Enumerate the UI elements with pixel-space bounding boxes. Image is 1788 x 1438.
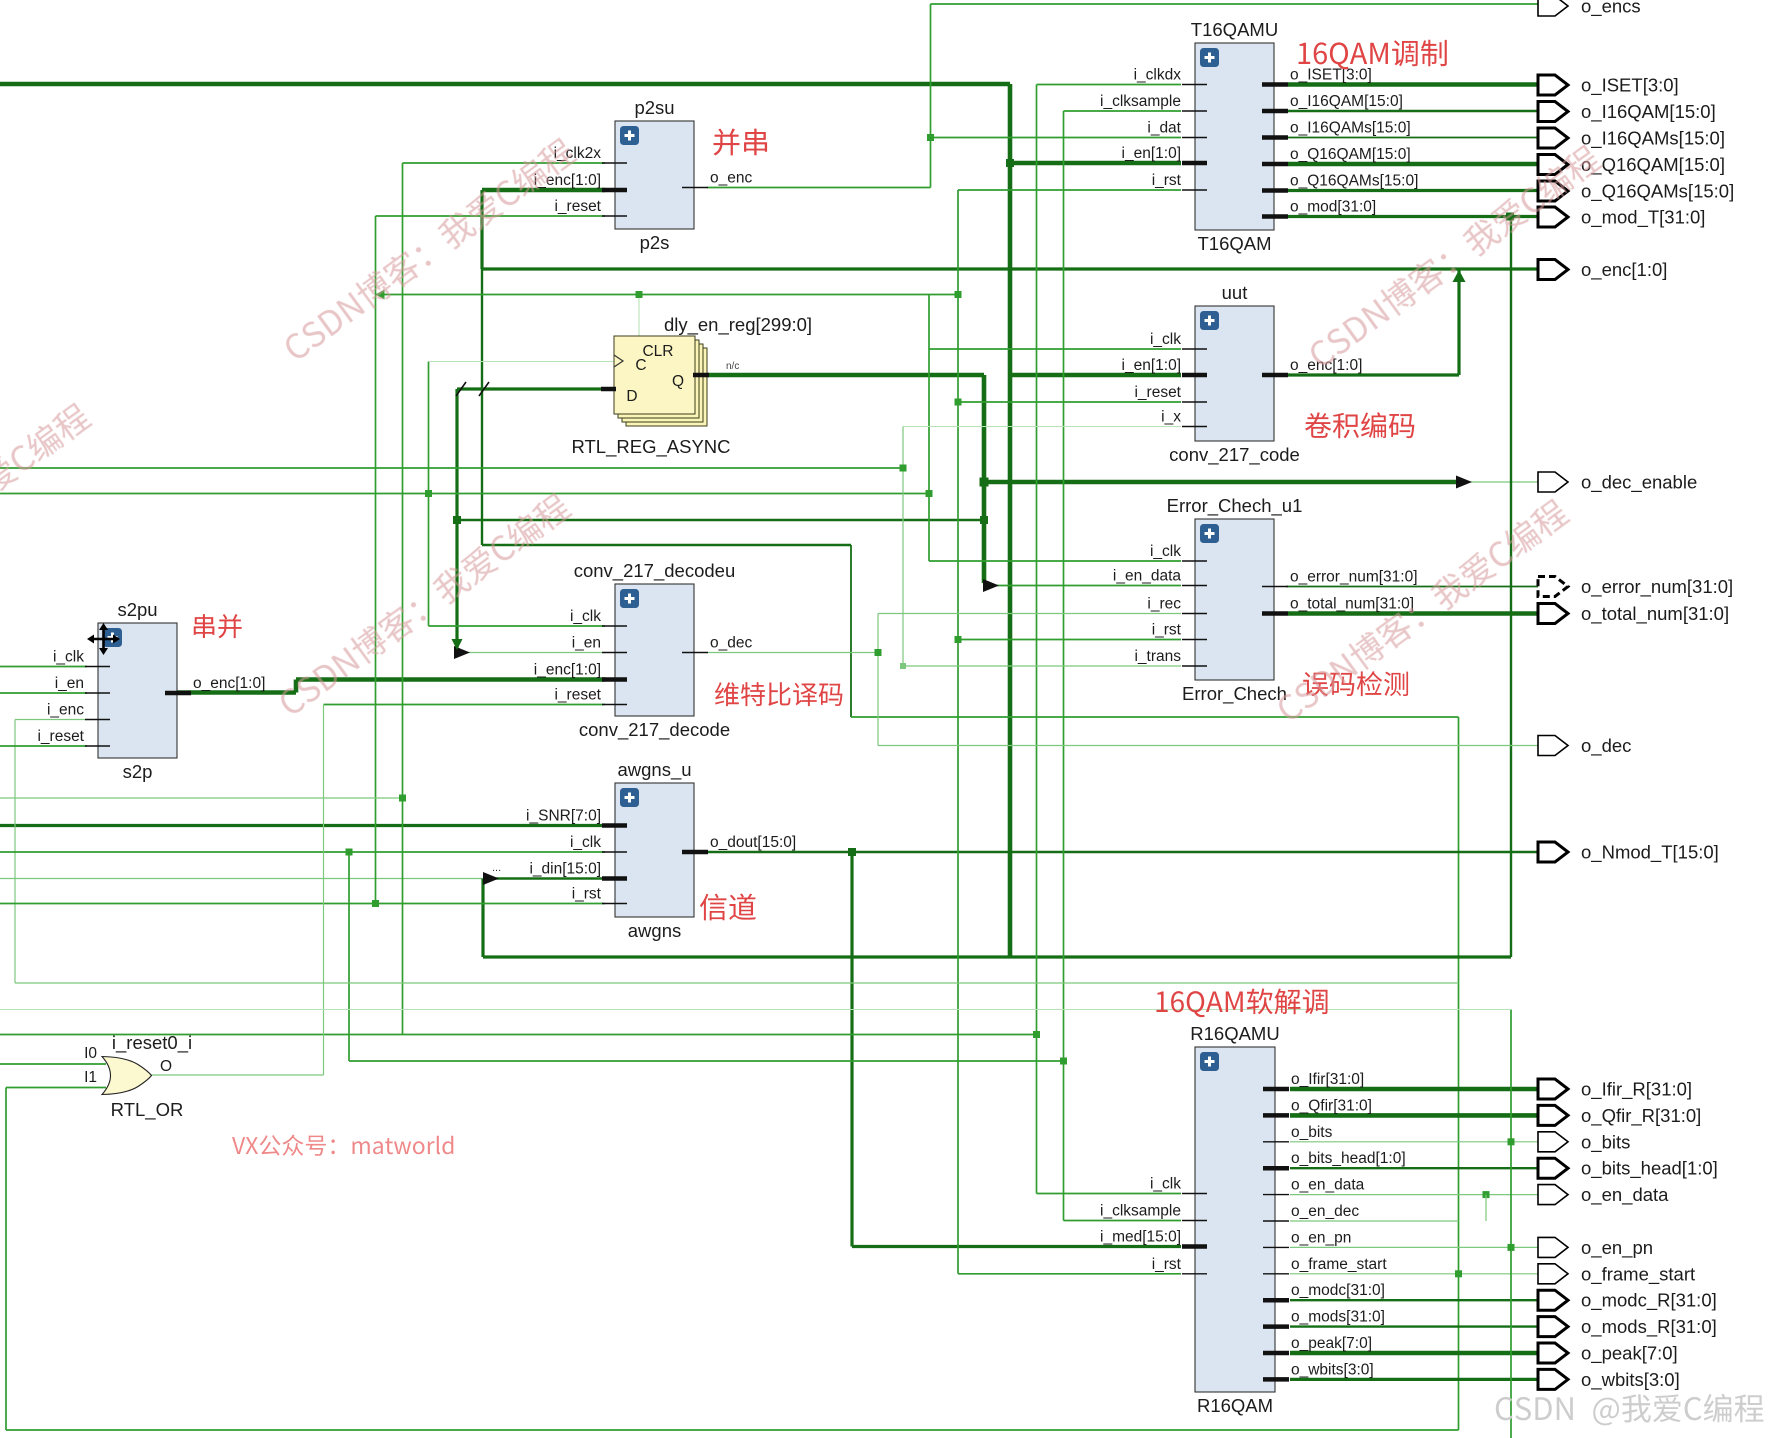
svg-text:o_total_num[31:0]: o_total_num[31:0] — [1581, 603, 1729, 625]
wire R16QAM i_rst feed — [958, 1273, 1181, 1275]
wire o_enc net rail y269 — [482, 267, 1539, 270]
wire net rail y545 — [482, 544, 851, 546]
wire uut i_clk feed — [929, 348, 1181, 350]
wire o_mod vertical x1511 — [1510, 217, 1512, 958]
wire decoder i_en line — [462, 652, 605, 654]
svg-text:o_enc[1:0]: o_enc[1:0] — [193, 675, 265, 692]
svg-text:o_Nmod_T[15:0]: o_Nmod_T[15:0] — [1581, 842, 1719, 864]
output port o_total_num[31:0] — [1538, 603, 1729, 625]
svg-text:Error_Chech_u1: Error_Chech_u1 — [1167, 495, 1303, 517]
wire o_dout vertical x852 — [850, 852, 853, 1247]
svg-text:i_en[1:0]: i_en[1:0] — [1122, 357, 1181, 374]
svg-text:o_Qfir[31:0]: o_Qfir[31:0] — [1291, 1097, 1372, 1114]
wire T16QAM o_ISET out — [1288, 82, 1539, 87]
svg-text:o_encs: o_encs — [1581, 0, 1641, 18]
wire R16QAM o_bits_head out — [1290, 1167, 1539, 1169]
output port o_Ifir_R[31:0] — [1538, 1079, 1692, 1101]
junction node i_x x903 — [900, 465, 907, 472]
wire s2p i_clk feed — [0, 666, 87, 668]
junction node o_frame_start — [1455, 1270, 1462, 1277]
wire T16QAM o_I16QAMs out — [1288, 137, 1539, 139]
svg-text:o_Ifir[31:0]: o_Ifir[31:0] — [1291, 1071, 1364, 1088]
wire R16QAM o_peak out — [1290, 1351, 1539, 1356]
junction node o_bits — [1508, 1138, 1515, 1145]
wire o_enc net vertical x482 lower — [481, 269, 483, 545]
output port o_bits_head[1:0] — [1538, 1158, 1718, 1180]
bus tick D wire 2 — [479, 382, 489, 396]
svg-text:i_clk: i_clk — [570, 608, 601, 625]
svg-text:o_wbits[3:0]: o_wbits[3:0] — [1581, 1369, 1680, 1391]
svg-text:o_bits_head[1:0]: o_bits_head[1:0] — [1581, 1158, 1718, 1180]
output port o_encs — [1538, 0, 1641, 18]
wire CLR drop x639 — [638, 295, 640, 337]
module conv_217_code (uut) — [1122, 282, 1363, 466]
wire RTL_OR I0 feed — [0, 1063, 106, 1065]
wire clk2x vertical x402 — [402, 163, 404, 1035]
junction node CLR/x958 — [955, 291, 962, 298]
svg-text:T16QAMU: T16QAMU — [1191, 19, 1278, 40]
svg-text:o_Q16QAM[15:0]: o_Q16QAM[15:0] — [1290, 146, 1411, 163]
wire T16QAM o_mod out — [1288, 215, 1539, 218]
svg-text:o_total_num[31:0]: o_total_num[31:0] — [1290, 596, 1414, 613]
svg-text:o_en_pn: o_en_pn — [1291, 1229, 1351, 1246]
svg-text:uut: uut — [1222, 282, 1248, 303]
wire decoder i_enc rail y679 — [296, 677, 605, 682]
svg-text:i_dat: i_dat — [1147, 120, 1181, 137]
svg-text:CLR: CLR — [642, 343, 673, 360]
svg-text:o_Q16QAM[15:0]: o_Q16QAM[15:0] — [1581, 154, 1725, 176]
wire clk vertical x929 — [928, 295, 930, 562]
svg-text:i_en_data: i_en_data — [1113, 568, 1181, 585]
svg-text:D: D — [626, 388, 637, 405]
svg-text:RTL_REG_ASYNC: RTL_REG_ASYNC — [571, 436, 730, 458]
svg-text:i_en: i_en — [572, 635, 601, 652]
wire reset vertical x958 — [957, 190, 959, 1274]
wire Error i_trans feed — [903, 665, 1181, 667]
svg-text:o_bits: o_bits — [1581, 1131, 1630, 1153]
svg-text:o_enc[1:0]: o_enc[1:0] — [1581, 259, 1667, 281]
wire vertical x323 — [323, 705, 325, 1076]
wire o_enc net vertical x482 upper — [480, 190, 483, 269]
output port o_mod_T[31:0] — [1538, 207, 1705, 229]
wire o_encs rail y4 — [931, 3, 1540, 5]
svg-text:o_peak[7:0]: o_peak[7:0] — [1581, 1343, 1678, 1365]
wire Error i_clk feed — [929, 560, 1181, 562]
svg-text:conv_217_code: conv_217_code — [1169, 444, 1300, 466]
svg-text:o_mod_T[31:0]: o_mod_T[31:0] — [1581, 207, 1705, 229]
svg-text:i_enc[1:0]: i_enc[1:0] — [534, 662, 601, 679]
svg-text:o_wbits[3:0]: o_wbits[3:0] — [1291, 1361, 1374, 1378]
wire dly_en_reg D feed — [457, 387, 603, 390]
output port o_frame_start — [1538, 1263, 1695, 1285]
wire R16QAM o_en_dec out — [1290, 1220, 1459, 1222]
wire R16QAM o_modc out — [1290, 1299, 1539, 1301]
wire net vertical x1458 — [1458, 717, 1460, 1430]
wire rail y1034 — [0, 1034, 1037, 1036]
svg-text:T16QAM: T16QAM — [1197, 233, 1271, 254]
svg-text:I0: I0 — [84, 1045, 97, 1062]
wire Error o_total_num out — [1288, 611, 1539, 616]
watermark 4 — [275, 490, 574, 719]
wire p2s o_enc out — [707, 187, 931, 189]
output port o_dec — [1538, 735, 1631, 757]
svg-text:i_rst: i_rst — [1152, 622, 1182, 639]
wire s2p o_enc step — [294, 680, 299, 693]
or-gate RTL_OR (i_reset0_i) — [84, 1032, 192, 1121]
svg-text:RTL_OR: RTL_OR — [111, 1099, 184, 1121]
junction node uut i_reset — [955, 399, 962, 406]
wire T16QAM i_clksample feed — [1064, 110, 1182, 112]
wire vertical x6 — [5, 1088, 7, 1431]
wire vertical x984 — [982, 375, 987, 583]
annotation label 信道 — [700, 894, 756, 921]
wire o_dec_enable rail y482 — [984, 480, 1456, 485]
svg-text:o_ISET[3:0]: o_ISET[3:0] — [1581, 75, 1679, 97]
output port o_en_data — [1538, 1184, 1669, 1206]
wire RTL_OR O out — [150, 1074, 324, 1076]
svg-text:o_modc[31:0]: o_modc[31:0] — [1291, 1282, 1385, 1299]
wire T16QAM o_Q16QAMs out — [1288, 189, 1539, 192]
register dly_en_reg[299:0] RTL_REG_ASYNC — [571, 314, 812, 458]
wire R16QAM o_Ifir out — [1290, 1087, 1539, 1092]
output port o_ISET[3:0] — [1538, 75, 1679, 97]
wire awgns i_clk feed — [0, 851, 605, 853]
svg-text:i_clk: i_clk — [1150, 1176, 1181, 1193]
svg-text:i_rst: i_rst — [572, 886, 602, 903]
svg-text:o_en_data: o_en_data — [1291, 1177, 1365, 1194]
wire R16QAM i_clk feed — [1037, 1193, 1182, 1195]
output port o_I16QAM[15:0] — [1538, 101, 1716, 123]
wire s2p i_en feed — [0, 692, 87, 694]
wire dly_en_reg C feed — [429, 361, 617, 363]
svg-text:i_reset: i_reset — [554, 687, 601, 704]
module R16QAM (R16QAMU) — [1100, 1023, 1406, 1416]
wire T16QAM i_rst feed — [958, 189, 1181, 191]
watermark 5 — [1273, 496, 1572, 725]
watermark 2 — [1305, 142, 1604, 371]
wire decoder i_clk feed — [429, 625, 606, 627]
wire i_din row light rail — [0, 878, 490, 880]
wire s2p i_enc vertical x15 — [14, 720, 16, 984]
svg-text:o_Q16QAMs[15:0]: o_Q16QAMs[15:0] — [1290, 173, 1418, 190]
wire R16QAM i_med feed — [852, 1245, 1181, 1248]
svg-text:o_dec: o_dec — [1581, 735, 1631, 757]
wire o_mod vertical x483 — [481, 879, 484, 958]
output port o_Nmod_T[15:0] — [1538, 842, 1719, 864]
junction node y520 — [980, 516, 988, 524]
wire vertical x428 — [428, 362, 430, 627]
svg-text:i_reset0_i: i_reset0_i — [112, 1032, 192, 1054]
junction node y520 left — [453, 516, 461, 524]
wire rail y983 — [15, 982, 1459, 984]
wire T16QAM o_I16QAM out — [1288, 110, 1539, 112]
svg-text:o_en_dec: o_en_dec — [1291, 1203, 1359, 1220]
annotation label 误码检测 — [1303, 671, 1408, 696]
wire net rail y717 — [851, 716, 1459, 718]
svg-text:conv_217_decodeu: conv_217_decodeu — [574, 560, 736, 582]
annotation label 维特比译码 — [715, 682, 842, 706]
wire awgns i_rst feed — [0, 903, 605, 905]
wire vertical x457 to decoder i_en — [455, 389, 458, 653]
wire RTL_OR I1 feed — [6, 1087, 106, 1089]
module s2p (s2pu) — [37, 599, 265, 782]
junction node R16 i_clksample — [1060, 1058, 1067, 1065]
svg-text:o_peak[7:0]: o_peak[7:0] — [1291, 1335, 1372, 1352]
svg-text:i_clk: i_clk — [1150, 543, 1181, 560]
svg-text:conv_217_decode: conv_217_decode — [579, 719, 730, 741]
output port o_modc_R[31:0] — [1538, 1290, 1717, 1312]
wire decoder i_reset feed — [324, 704, 606, 706]
svg-text:o_Qfir_R[31:0]: o_Qfir_R[31:0] — [1581, 1105, 1701, 1127]
svg-text:Q: Q — [672, 373, 684, 390]
module p2s (p2su) — [534, 97, 753, 253]
svg-text:awgns: awgns — [628, 920, 681, 941]
svg-text:dly_en_reg[299:0]: dly_en_reg[299:0] — [664, 314, 812, 336]
svg-text:Error_Chech: Error_Chech — [1182, 683, 1287, 705]
wire rail y1061 — [349, 1060, 1064, 1062]
svg-text:o_bits: o_bits — [1291, 1124, 1333, 1141]
svg-text:i_reset: i_reset — [1134, 384, 1181, 401]
module awgns (awgns_u) — [526, 759, 796, 941]
wire o_dec rail y745 — [878, 745, 1539, 747]
wire rail y1009 — [0, 1009, 1511, 1011]
svg-text:i_SNR[7:0]: i_SNR[7:0] — [526, 808, 601, 825]
wire R16QAM o_Qfir out — [1290, 1113, 1539, 1118]
wire p2s i_reset feed — [376, 215, 606, 217]
svg-text:i_enc: i_enc — [47, 702, 84, 719]
wire o_mod rail y957 — [483, 955, 1511, 958]
wire uut i_x feed — [903, 426, 1181, 428]
svg-text:R16QAM: R16QAM — [1197, 1395, 1273, 1416]
annotation label 16QAM软解调 — [1156, 988, 1327, 1017]
bus tick D wire — [456, 382, 466, 396]
annotation label 串并 — [194, 614, 242, 638]
svg-text:i_rst: i_rst — [1152, 172, 1182, 189]
wire R16QAM o_mods out — [1290, 1325, 1539, 1327]
svg-text:awgns_u: awgns_u — [617, 759, 691, 781]
wire R16QAM o_frame_start out — [1290, 1273, 1539, 1275]
output port o_I16QAMs[15:0] — [1538, 128, 1725, 150]
wire s2p i_enc feed — [15, 719, 87, 721]
svg-text:o_error_num[31:0]: o_error_num[31:0] — [1581, 576, 1733, 598]
wire reset vertical x375 — [375, 216, 377, 904]
output port o_wbits[3:0] — [1538, 1369, 1680, 1391]
svg-text:I1: I1 — [84, 1069, 97, 1086]
junction node o_mod_T — [1506, 213, 1514, 221]
svg-text:s2pu: s2pu — [117, 599, 157, 620]
wire i_en bus top rail — [0, 82, 1010, 87]
output port o_en_pn — [1538, 1237, 1653, 1259]
wire p2s i_clk2x feed — [403, 162, 606, 164]
wire T16QAM o_Q16QAM out — [1288, 162, 1539, 167]
svg-text:s2p: s2p — [123, 761, 153, 782]
arrowhead into awgns i_din — [483, 872, 499, 885]
output port o_error_num[31:0] — [1538, 576, 1733, 598]
junction node clk x929 — [926, 490, 933, 497]
wire Error o_error_num out — [1286, 586, 1539, 588]
junction node clk x428 — [425, 490, 432, 497]
wire Error i_rec feed — [878, 613, 1181, 615]
svg-text:o_dout[15:0]: o_dout[15:0] — [710, 834, 796, 851]
svg-text:o_en_pn: o_en_pn — [1581, 1237, 1653, 1259]
svg-text:p2s: p2s — [640, 232, 670, 253]
svg-text:O: O — [160, 1058, 172, 1075]
wire R16QAM i_clksample feed — [1064, 1220, 1182, 1222]
wire Error i_en_data feed — [992, 585, 1181, 587]
wire net vertical x851 — [850, 545, 852, 717]
watermark CSDN bottom — [1496, 1394, 1764, 1426]
wire i_en bus into uut i_en — [1010, 373, 1181, 378]
wire T16QAM i_dat feed — [931, 137, 1182, 139]
wire awgns o_dout to o_Nmod_T — [707, 851, 1539, 853]
arrowhead CLR rail left — [376, 290, 385, 300]
svg-text:i_din[15:0]: i_din[15:0] — [529, 861, 601, 878]
wire rail y798 — [0, 797, 403, 799]
wire uut i_reset feed — [958, 401, 1181, 403]
output port o_mods_R[31:0] — [1538, 1316, 1717, 1338]
wire uut o_enc vertical x1459 — [1457, 270, 1460, 375]
output port o_dec_enable — [1538, 472, 1697, 494]
wire clk rail y493 — [0, 493, 929, 495]
output port o_Q16QAM[15:0] — [1538, 154, 1725, 176]
wire p2s i_enc feed — [482, 188, 605, 193]
svg-text:o_en_data: o_en_data — [1581, 1184, 1669, 1206]
junction node awgns i_clk — [346, 849, 353, 856]
svg-text:i_clk: i_clk — [53, 649, 84, 666]
svg-text:o_enc[1:0]: o_enc[1:0] — [1290, 357, 1362, 374]
wire vertical x349 — [348, 852, 350, 1061]
wire awgns i_SNR rail — [0, 824, 605, 827]
annotation label 并串 — [714, 129, 768, 156]
output port o_bits — [1538, 1131, 1630, 1153]
wire uut o_enc out — [1288, 373, 1459, 376]
svg-text:i_reset: i_reset — [37, 728, 84, 745]
junction node o_encs/i_dat — [927, 134, 934, 141]
output port o_Qfir_R[31:0] — [1538, 1105, 1701, 1127]
module T16QAM (T16QAMU) — [1100, 19, 1418, 254]
wire Error i_rst feed — [958, 639, 1181, 641]
wire o_encs vertical x930 — [930, 4, 932, 188]
output port o_enc[1:0] — [1538, 259, 1667, 281]
svg-text:o_mods[31:0]: o_mods[31:0] — [1291, 1309, 1385, 1326]
svg-text:i_x: i_x — [1161, 409, 1181, 426]
junction node Error i_rst — [955, 636, 962, 643]
move-cursor icon on s2pu — [91, 627, 116, 651]
wire R16QAM o_en_pn out — [1290, 1246, 1539, 1248]
wire decoder o_dec out — [707, 652, 878, 654]
svg-text:o_error_num[31:0]: o_error_num[31:0] — [1290, 569, 1418, 586]
junction node o_dout — [848, 848, 856, 856]
junction node i_en T16QAM — [1006, 159, 1014, 167]
wire clkdx vertical x1036 — [1036, 85, 1038, 1194]
wire vertical x1511 lower — [1510, 1010, 1512, 1438]
wire awgns i_din feed — [492, 877, 605, 879]
junction node R16 i_clk — [1033, 1031, 1040, 1038]
svg-text:o_frame_start: o_frame_start — [1291, 1256, 1387, 1273]
wire R16QAM o_wbits out — [1290, 1378, 1539, 1381]
junction node y798 — [399, 795, 406, 802]
wire T16QAM i_clkdx feed — [1037, 84, 1182, 86]
wire R16QAM o_bits out — [1290, 1141, 1539, 1143]
wire o_dec_enable tail — [1462, 481, 1539, 483]
svg-text:C: C — [635, 357, 646, 374]
wire o_dec vertical x878 — [877, 614, 879, 746]
arrowhead into Error i_en_data — [983, 579, 999, 592]
svg-text:...: ... — [492, 862, 501, 874]
svg-text:o_enc: o_enc — [710, 170, 752, 187]
svg-text:o_I16QAMs[15:0]: o_I16QAMs[15:0] — [1581, 128, 1725, 150]
svg-text:o_frame_start: o_frame_start — [1581, 1263, 1695, 1285]
svg-text:i_clk: i_clk — [1150, 331, 1181, 348]
svg-text:o_mods_R[31:0]: o_mods_R[31:0] — [1581, 1316, 1717, 1338]
watermark 3 — [0, 400, 93, 629]
svg-text:p2su: p2su — [634, 97, 674, 118]
wire rail y520 — [457, 519, 984, 521]
wire i_en bus into T16QAM i_en — [1010, 161, 1181, 166]
svg-text:i_clksample: i_clksample — [1100, 93, 1181, 110]
svg-text:i_clksample: i_clksample — [1100, 1203, 1181, 1220]
svg-text:o_I16QAM[15:0]: o_I16QAM[15:0] — [1290, 93, 1403, 110]
wire rail y468 — [0, 467, 903, 469]
wire vertical x903 — [902, 427, 904, 667]
module Error_Chech (Error_Chech_u1) — [1113, 495, 1418, 705]
svg-text:o_modc_R[31:0]: o_modc_R[31:0] — [1581, 1290, 1717, 1312]
wire R16QAM o_en_data out — [1290, 1194, 1539, 1196]
svg-text:o_dec: o_dec — [710, 635, 752, 652]
output port o_Q16QAMs[15:0] — [1538, 181, 1734, 203]
svg-text:o_Q16QAMs[15:0]: o_Q16QAMs[15:0] — [1581, 181, 1734, 203]
arrowhead into decoder i_en — [454, 646, 470, 659]
junction node o_dec — [875, 649, 882, 656]
arrowhead into o_dec_enable — [1456, 476, 1472, 489]
wire clksample vertical x1063 — [1063, 111, 1065, 1221]
svg-text:i_en: i_en — [55, 675, 84, 692]
svg-text:i_rst: i_rst — [1152, 1256, 1182, 1273]
svg-text:o_bits_head[1:0]: o_bits_head[1:0] — [1291, 1150, 1406, 1167]
wire s2p i_reset feed — [0, 745, 87, 747]
annotation label 卷积编码 — [1305, 412, 1414, 438]
svg-text:o_Ifir_R[31:0]: o_Ifir_R[31:0] — [1581, 1079, 1692, 1101]
svg-text:o_I16QAM[15:0]: o_I16QAM[15:0] — [1581, 101, 1716, 123]
svg-text:i_en[1:0]: i_en[1:0] — [1122, 145, 1181, 162]
svg-text:i_med[15:0]: i_med[15:0] — [1100, 1229, 1181, 1246]
svg-text:i_clkdx: i_clkdx — [1134, 67, 1182, 84]
watermark 1 — [280, 135, 579, 364]
annotation label 16QAM调制 — [1299, 40, 1447, 70]
junction node awgns i_rst — [372, 900, 379, 907]
svg-text:i_rec: i_rec — [1147, 596, 1181, 613]
watermark VX matworld — [232, 1135, 453, 1156]
svg-text:i_trans: i_trans — [1134, 648, 1181, 665]
junction node CLR — [636, 291, 643, 298]
wire o_en_data drop x1486 — [1485, 1195, 1487, 1221]
svg-text:o_dec_enable: o_dec_enable — [1581, 472, 1697, 494]
module conv_217_decode (conv_217_decodeu) — [534, 560, 753, 741]
wire CLR rail y294 — [376, 294, 959, 296]
wire bottom rail y1430 — [6, 1429, 1459, 1431]
output port o_peak[7:0] — [1538, 1343, 1678, 1365]
svg-text:o_I16QAMs[15:0]: o_I16QAMs[15:0] — [1290, 120, 1411, 137]
wire dly_en_reg Q out — [707, 373, 984, 378]
junction node i_trans — [900, 663, 906, 669]
svg-text:i_reset: i_reset — [554, 198, 601, 215]
junction node o_en_pn — [1508, 1244, 1515, 1251]
svg-text:n/c: n/c — [726, 361, 739, 372]
svg-text:i_clk: i_clk — [570, 834, 601, 851]
wire i_en bus vertical x1010 — [1008, 84, 1013, 957]
junction node o_en_data — [1483, 1191, 1490, 1198]
arrowhead x457 down — [452, 639, 463, 650]
